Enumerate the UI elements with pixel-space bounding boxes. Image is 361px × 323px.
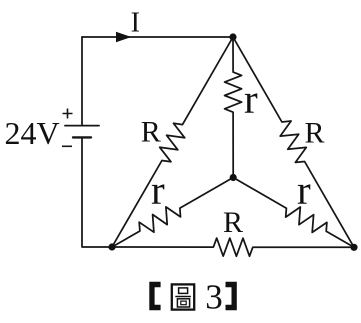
svg-text:24V: 24V (5, 115, 60, 151)
caption left lenticular bracket (149, 282, 160, 310)
resistor R (right side of triangle) with lead wires (233, 37, 354, 247)
node: center (star point) junction dot (230, 174, 237, 181)
resistor r (top inner, top node to center node) with lead wires (225, 37, 242, 178)
resistor R (left side of triangle) with lead wires (112, 37, 233, 247)
battery minus sign (62, 145, 72, 147)
wire: left rail upper (battery + up to top wire) (81, 37, 83, 126)
svg-text:3: 3 (205, 278, 223, 317)
svg-text:R: R (305, 116, 325, 149)
resistor r (left inner, center node to bottom-left node) with lead wires (112, 178, 233, 248)
battery B1 negative plate (short) (73, 136, 91, 138)
caption right lenticular bracket (226, 282, 237, 310)
svg-text:I: I (131, 8, 140, 39)
svg-text:r: r (244, 76, 258, 122)
node: bottom-right vertex junction dot (350, 244, 357, 251)
node: top vertex junction dot (229, 33, 236, 40)
resistor r (right inner, center node to bottom-right node) with lead wires (233, 178, 354, 248)
wire: top horizontal from battery to top node (82, 36, 233, 38)
current direction arrow on top wire (116, 32, 132, 42)
battery B1 positive plate (long) (65, 125, 99, 127)
svg-text:r: r (151, 167, 165, 213)
caption character 圖 (172, 284, 194, 309)
node: bottom-left vertex junction dot (108, 243, 115, 250)
battery plus sign (63, 109, 73, 119)
wire: left rail lower (battery - down and right to bottom-left node) (82, 137, 112, 247)
svg-text:R: R (141, 116, 161, 149)
svg-text:r: r (297, 167, 311, 213)
resistor R (bottom side) with lead wires (112, 238, 354, 256)
svg-text:R: R (223, 206, 243, 239)
